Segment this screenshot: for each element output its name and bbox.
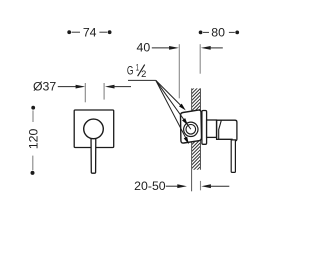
wall hatch section bbox=[188, 78, 204, 186]
dim 74 right dot bbox=[108, 30, 112, 34]
label G 1/2 underline bbox=[128, 79, 156, 81]
dim 120 top dot bbox=[31, 106, 35, 110]
side view escutcheon plate bbox=[202, 111, 207, 145]
front view lever bbox=[91, 134, 96, 173]
svg-text:2: 2 bbox=[141, 69, 146, 79]
side view cartridge outer circle bbox=[184, 122, 198, 136]
svg-text:40: 40 bbox=[137, 41, 151, 55]
wall left edge line (continues down as 20-50 extension) bbox=[191, 88, 193, 191]
side view lever bbox=[231, 140, 235, 173]
dim 120 bottom dot bbox=[31, 171, 35, 175]
dim 40 right extension line bbox=[199, 44, 201, 73]
dim 40 right tail line bbox=[208, 47, 223, 49]
svg-text:Ø37: Ø37 bbox=[33, 80, 56, 94]
dim 20-50 right tail line bbox=[208, 185, 230, 187]
dim 40 leader line bbox=[152, 47, 172, 49]
front view handle circle bbox=[84, 119, 104, 139]
wall right edge line bbox=[200, 88, 202, 169]
svg-text:20-50: 20-50 bbox=[134, 179, 166, 193]
side view handle hub bbox=[217, 120, 237, 141]
dim 80 left line bbox=[203, 31, 209, 33]
dim 74 left dot bbox=[67, 30, 71, 34]
side view body cylinder bbox=[207, 120, 217, 137]
dim 80 right dot bbox=[235, 31, 239, 35]
dim 40 left extension line bbox=[178, 44, 180, 98]
dim 40 left-pointing arrowhead bbox=[201, 46, 211, 50]
dim Ø37 leader line bbox=[58, 86, 79, 88]
G 1/2 leader line 2 bbox=[156, 80, 191, 129]
side view handle parting line bbox=[219, 120, 222, 139]
svg-text:80: 80 bbox=[211, 26, 225, 40]
side view in-wall valve body bbox=[181, 110, 202, 143]
dim 80 right line bbox=[229, 31, 235, 33]
svg-text:G: G bbox=[127, 64, 134, 78]
G 1/2 leader line 3 bbox=[156, 80, 187, 139]
front view plate bbox=[74, 110, 114, 148]
dim Ø37 right extension tick bbox=[103, 83, 105, 100]
dim 80 left dot bbox=[199, 31, 203, 35]
dim 20-50 leader line bbox=[166, 185, 181, 187]
svg-text:120: 120 bbox=[26, 128, 40, 149]
dim 120 top line bbox=[32, 110, 34, 122]
G 1/2 leader line 1 bbox=[156, 80, 183, 107]
svg-text:1: 1 bbox=[136, 63, 139, 73]
dim 20-50 left-pointing arrowhead bbox=[201, 184, 211, 188]
dim Ø37 left-pointing arrowhead bbox=[105, 85, 115, 89]
dim 40 right-pointing arrowhead bbox=[169, 46, 179, 50]
dim Ø37 right-pointing arrowhead bbox=[76, 85, 86, 89]
G 1/2 leader arrowhead 1 bbox=[179, 104, 186, 111]
dim 74 left line bbox=[72, 31, 80, 33]
dim 20-50 right extension tick bbox=[200, 181, 202, 190]
dim 74 right line bbox=[99, 31, 107, 33]
side view cartridge inner circle bbox=[186, 125, 196, 135]
dim 20-50 right-pointing arrowhead bbox=[177, 184, 187, 188]
dim Ø37 left extension tick bbox=[84, 83, 86, 102]
G 1/2 leader arrowhead 2 bbox=[182, 118, 188, 125]
G 1/2 leader arrowhead 3 bbox=[184, 137, 189, 145]
dim 120 bottom line bbox=[32, 156, 34, 171]
dim Ø37 right tail line bbox=[111, 86, 131, 88]
svg-text:74: 74 bbox=[83, 25, 97, 39]
